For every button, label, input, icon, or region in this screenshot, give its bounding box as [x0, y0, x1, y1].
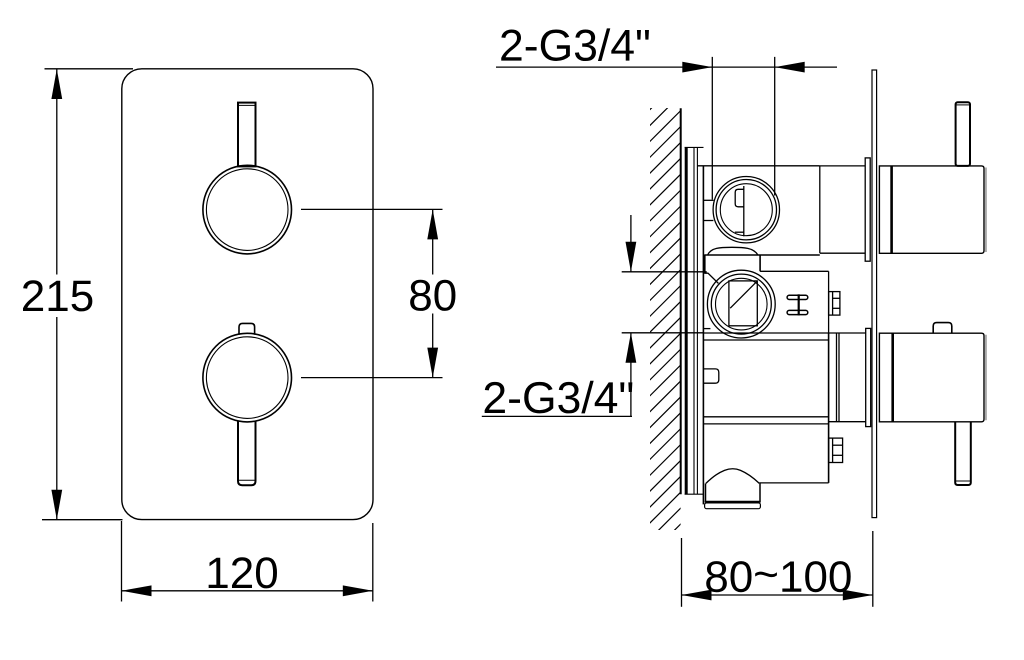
dimension line 80 vertical [432, 209, 434, 274]
top port middle circle [716, 180, 776, 240]
valve body right edge upper [819, 166, 821, 253]
leader line upper knob (80 dim) [301, 208, 443, 210]
dimension line 120 [122, 590, 373, 592]
mounting strip bottom edge [685, 493, 704, 495]
arrow left (120) [122, 585, 152, 596]
text 80~100 [706, 561, 751, 592]
pipe stub line lower [703, 220, 713, 222]
lower knob stem [238, 421, 256, 485]
bottom nut line 2 [833, 454, 843, 456]
extension line left (G3/4 top dim) [711, 57, 713, 200]
lower body tab left [703, 369, 718, 383]
extension line left (80~100) [681, 538, 683, 607]
text 215 [23, 280, 92, 311]
lower block right edge [828, 333, 830, 483]
mounting plate strip (dark pair) [685, 147, 688, 494]
valve body left edge [702, 166, 704, 505]
bottom handle stem [955, 422, 971, 485]
arrow up (215 top) [51, 69, 62, 99]
spout box right edge [759, 483, 761, 501]
extension line right (80~100) [872, 531, 874, 607]
escutcheon flange bottom [866, 328, 871, 426]
dimension line G3/4 top [496, 66, 837, 68]
dome chord line [704, 254, 820, 256]
extension line top (215 dim) [45, 68, 134, 70]
upper knob outer circle [203, 165, 292, 254]
lower knob outer circle [203, 333, 292, 422]
thermostat nut line 1 [833, 297, 840, 299]
extension line right (120 dim) [372, 523, 374, 602]
bottom nut [829, 438, 843, 462]
thermostat nut line 2 [833, 307, 840, 309]
H symbol bottom bar [787, 310, 808, 314]
bottom handle cylinder [879, 333, 984, 422]
underline leader (G3/4 bottom) [482, 415, 632, 417]
dimension line vertical (G3/4 bottom) [630, 215, 632, 272]
thermostat block bottom edge [703, 332, 865, 334]
top handle stem [956, 102, 970, 166]
arrow down (80 bottom) [427, 348, 438, 378]
cartridge neck top band top edge [820, 165, 865, 167]
middle port outer circle [707, 270, 775, 338]
spout box bottom (thick) [705, 501, 761, 503]
top handle shadow edge [985, 168, 987, 253]
bottom handle cap line [891, 333, 894, 421]
lower knob top tab [239, 323, 255, 334]
main block bottom line 1 [703, 416, 828, 418]
bottom handle top tab [933, 323, 952, 334]
wall surface line [680, 108, 682, 494]
dome box bottom + chamfer [704, 273, 718, 283]
upper knob stem [238, 103, 256, 167]
top port bottom tick [735, 231, 744, 233]
thermostat block right edge [828, 271, 830, 333]
dimension line 215 vertical [56, 69, 58, 275]
text 100 of 80~100 [782, 561, 850, 592]
H symbol top bar [787, 295, 808, 299]
bottom nut line 1 [833, 444, 843, 446]
arrow right-pointing (G3/4 top) [682, 62, 712, 73]
thermostat nut [829, 292, 840, 316]
cartridge neck bottom band bottom edge [829, 421, 866, 423]
lower knob inner circle [206, 337, 288, 419]
arrow left-pointing (G3/4 top) [775, 62, 805, 73]
top port centre vertical line [743, 186, 745, 236]
dimension line 80~100 [682, 594, 873, 596]
extension line bottom (215 dim) [42, 519, 123, 521]
arrow down (G3/4 bottom upper) [626, 242, 637, 272]
trim plate side bar [872, 70, 877, 518]
leader line lower knob (80 dim) [301, 377, 443, 379]
wall hatching [650, 78, 682, 571]
arrow up (G3/4 bottom lower) [626, 333, 637, 363]
neck joint line 1 [836, 333, 838, 422]
middle port middle circle [711, 274, 771, 334]
text 80 [410, 280, 455, 311]
middle port stub line [703, 328, 710, 330]
leader line lower (G3/4 bottom dim) [622, 332, 704, 334]
trim plate (rounded rectangle) [122, 69, 373, 520]
cartridge neck top band bottom edge [820, 252, 865, 254]
thermostat block top edge [760, 270, 829, 272]
text 120 [209, 557, 277, 588]
arrow down (215 bottom) [51, 490, 62, 520]
spout box left edge [705, 483, 707, 501]
arrow right (80~100) [843, 590, 873, 601]
mounting strip line 2 [696, 147, 698, 494]
dome box left edge [704, 255, 706, 273]
H symbol vertical line [798, 294, 800, 315]
bottom handle shadow edge [985, 335, 987, 421]
top port inner circle [720, 184, 772, 236]
arrow left (80~100) [682, 590, 712, 601]
mounting strip top edge [685, 146, 704, 148]
dome box right edge [759, 255, 761, 271]
bottom stem inner line [955, 480, 971, 482]
escutcheon flange top [865, 158, 870, 261]
text tilde of 80~100 [755, 572, 777, 577]
middle port inner circle [716, 278, 768, 330]
lower stem inner line [238, 479, 256, 481]
top handle cylinder [879, 166, 984, 253]
thermostat nut vertical line [832, 292, 834, 316]
lower block bottom edge [759, 482, 828, 484]
pipe stub line upper [703, 199, 713, 201]
top port tab [735, 189, 744, 207]
lower body top line [703, 339, 828, 341]
spout flange [705, 503, 761, 509]
extension line right (G3/4 top dim) [774, 57, 776, 196]
top handle cap line [890, 166, 893, 253]
arrow up (80 top) [427, 209, 438, 239]
main block bottom line 2 [703, 423, 828, 425]
leader line upper (G3/4 bottom dim) [622, 271, 707, 273]
extension line left (120 dim) [121, 521, 123, 602]
middle port inner rect [729, 281, 757, 326]
upper stem chamfer line [238, 104, 256, 106]
spout arch [706, 469, 759, 484]
middle port diagonal [730, 281, 757, 308]
top port outer circle [713, 177, 779, 243]
neck joint line 2 [838, 333, 840, 422]
arrow right (120) [343, 585, 373, 596]
mounting strip line 1 [693, 147, 695, 494]
bottom nut vertical line [832, 438, 834, 462]
upper knob inner circle [206, 169, 288, 251]
top handle stem chamfer [956, 104, 970, 106]
text 2-G3/4" top [501, 28, 649, 61]
valve body top edge [698, 165, 820, 167]
text 2-G3/4" bottom [485, 381, 633, 414]
dome between ports (arc) [708, 247, 758, 255]
